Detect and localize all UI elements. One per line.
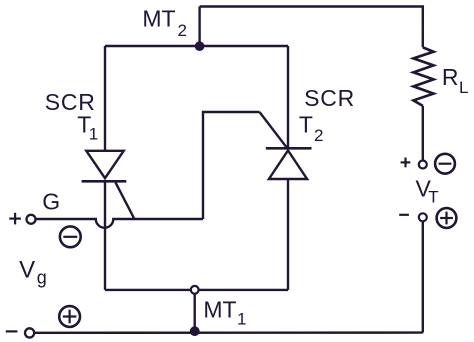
svg-text:2: 2 — [178, 21, 187, 40]
wire MT2 riser — [198, 7, 200, 47]
SCR T2 cathode lead — [287, 46, 289, 148]
polarity + at VT top — [401, 158, 411, 168]
polarity circled plus right of VT bottom terminal — [437, 208, 457, 228]
svg-text:MT: MT — [203, 297, 236, 323]
svg-text:2: 2 — [314, 126, 323, 145]
polarity + at gate terminal — [9, 213, 21, 225]
SCR T1 gate lead — [116, 182, 135, 219]
svg-text:MT: MT — [142, 6, 175, 32]
SCR T1 cathode lead — [104, 181, 106, 290]
SCR T2 cathode bar — [266, 147, 312, 150]
SCR T1 cathode bar — [82, 180, 127, 183]
polarity circled minus below gate wire — [60, 226, 81, 247]
terminal G open circle — [27, 215, 36, 224]
polarity minus at bottom left terminal — [6, 330, 18, 332]
SCR T2 triangle — [269, 150, 307, 179]
svg-text:SCR: SCR — [304, 85, 355, 111]
terminal VT minus open circle — [419, 213, 427, 221]
node MT1 open terminal circle — [191, 286, 199, 294]
wire bottom outer — [34, 331, 423, 334]
node MT2 junction dot — [195, 41, 205, 51]
wire VT minus terminal to bottom — [422, 221, 424, 332]
svg-text:T: T — [428, 187, 438, 206]
svg-text:1: 1 — [237, 309, 246, 328]
SCR T2 gate lead — [260, 112, 288, 148]
polarity circled minus right of VT top terminal — [435, 154, 455, 174]
svg-text:R: R — [442, 64, 459, 90]
svg-text:1: 1 — [89, 124, 98, 143]
svg-text:T: T — [299, 111, 313, 137]
svg-text:L: L — [459, 78, 468, 97]
svg-text:V: V — [19, 257, 35, 284]
terminal Vg minus open circle (bottom left) — [25, 328, 34, 337]
wire bottom inner (T1 cathode to T2 anode) — [105, 289, 288, 291]
terminal VT plus open circle — [419, 161, 427, 169]
gate wire riser to T2 gate — [203, 112, 260, 219]
wire RL to VT plus terminal — [422, 106, 424, 160]
polarity circled plus above bottom wire — [59, 306, 80, 327]
wire top outer (MT2 corner to RL) — [200, 7, 423, 48]
svg-text:g: g — [37, 268, 47, 288]
svg-text:G: G — [42, 188, 60, 214]
SCR T1 triangle — [86, 151, 123, 178]
wire top inner (T1 anode to T2 cathode) — [105, 45, 288, 47]
wire T2 anode lead — [287, 179, 289, 290]
wire MT1 stub — [193, 290, 195, 331]
resistor RL zigzag — [414, 47, 434, 106]
SCR T1 anode lead — [104, 46, 106, 151]
polarity minus at VT bottom — [399, 214, 409, 216]
node MT1 junction dot — [190, 326, 200, 336]
gate wire from terminal G with hop over T1 cathode — [35, 219, 203, 228]
